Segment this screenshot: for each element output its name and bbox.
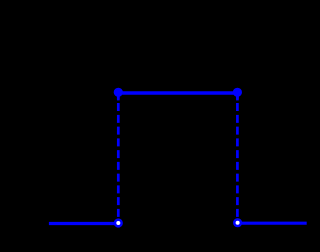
stub below dot a <box>117 96 120 100</box>
stub below dot b <box>236 96 239 100</box>
filled dot at (a, 1/(b-a)) <box>114 88 123 97</box>
top plateau line from a to b <box>118 91 237 95</box>
dashed vertical at x=a <box>117 91 120 217</box>
baseline right of b <box>238 222 307 225</box>
dashed vertical at x=b <box>236 91 239 217</box>
baseline left of a <box>49 222 118 225</box>
filled dot at (b, 1/(b-a)) <box>233 88 242 97</box>
open circle at (b, 0) <box>234 219 241 226</box>
open circle at (a, 0) <box>115 220 122 227</box>
